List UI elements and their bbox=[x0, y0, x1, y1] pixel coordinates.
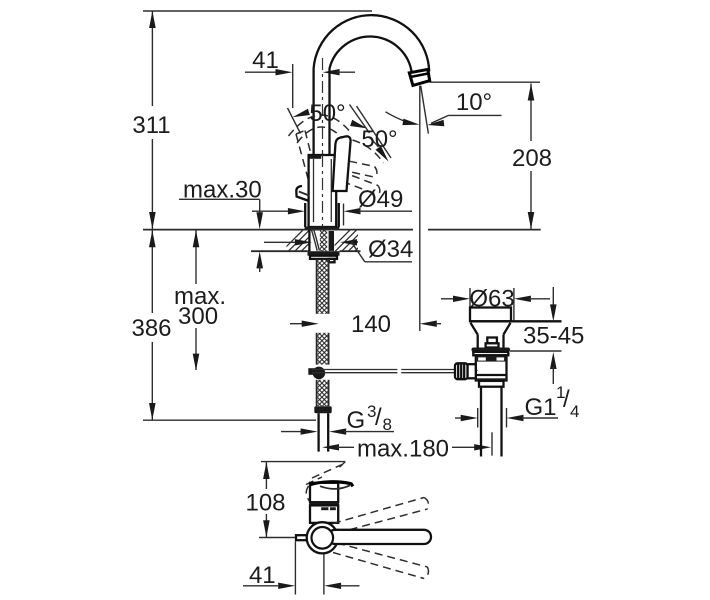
drain neck taper bbox=[471, 323, 511, 348]
drain washer bbox=[473, 352, 508, 355]
svg-text:50°: 50° bbox=[309, 100, 345, 127]
svg-text:/: / bbox=[563, 386, 570, 413]
dim 41 bottom bbox=[243, 583, 360, 589]
countertop hatching right bbox=[328, 228, 378, 252]
svg-text:Ø49: Ø49 bbox=[358, 186, 403, 213]
ext line drain centre bbox=[491, 432, 493, 455]
stream line tilted 10 deg bbox=[421, 86, 429, 134]
mounting nut bbox=[308, 251, 340, 256]
base collar left bbox=[304, 203, 306, 227]
side view body lower bbox=[310, 505, 338, 523]
pivot inner circle bbox=[312, 527, 334, 549]
base plate bbox=[305, 227, 340, 230]
shank hose curve bbox=[312, 230, 318, 251]
svg-text:G1: G1 bbox=[525, 394, 557, 421]
handle swing dashed arc outer bbox=[289, 115, 353, 136]
svg-text:/: / bbox=[375, 404, 382, 431]
spout inner contour bbox=[330, 37, 412, 155]
drain step bbox=[479, 381, 504, 387]
side view spout under curve bbox=[320, 485, 350, 489]
base collar right bbox=[338, 203, 340, 227]
drain stem knob bbox=[486, 338, 499, 348]
label G1 1/4 bbox=[525, 383, 580, 421]
body top dark band bbox=[309, 155, 321, 159]
shank left wall bbox=[308, 230, 310, 252]
svg-text:Ø34: Ø34 bbox=[368, 236, 413, 263]
rod guide stub bbox=[329, 259, 335, 262]
drain tailpipe bbox=[481, 387, 502, 457]
dashed lever down position bbox=[333, 543, 428, 579]
hose nut bottom bbox=[314, 406, 331, 413]
pop-up rod horizontal bbox=[312, 370, 455, 373]
svg-text:4: 4 bbox=[570, 402, 579, 421]
svg-text:108: 108 bbox=[245, 490, 285, 517]
svg-text:386: 386 bbox=[131, 315, 171, 342]
dim dia49 bbox=[252, 204, 412, 226]
drain body slot band bbox=[476, 356, 507, 361]
dim G3/8 arrows bbox=[281, 428, 394, 434]
handle swing dashed arc inner bbox=[297, 127, 347, 143]
svg-text:8: 8 bbox=[383, 415, 392, 434]
G3/8 pipe end bbox=[319, 413, 329, 451]
pop-up rod ball joint bbox=[313, 367, 326, 380]
lever arm solid bbox=[328, 530, 431, 544]
side view pin left bbox=[296, 535, 310, 540]
stream line vertical from tip bbox=[419, 86, 421, 331]
shank rod channel dark bbox=[329, 231, 334, 251]
extension line 41 (handle extreme) bbox=[292, 64, 294, 108]
side view break ellipse dashed bbox=[306, 486, 336, 501]
ref line 35-45 lower bbox=[510, 350, 562, 352]
svg-text:208: 208 bbox=[512, 145, 552, 172]
shank braid bbox=[320, 230, 327, 252]
angular dim 50deg no.1 bbox=[288, 108, 368, 134]
dim max.30 leader bbox=[179, 199, 263, 272]
hook detail left bbox=[296, 186, 309, 201]
svg-text:41: 41 bbox=[249, 562, 276, 589]
dim max.300 vertical bbox=[193, 230, 200, 371]
countertop bottom line bbox=[251, 250, 307, 252]
spout outer contour bbox=[314, 15, 430, 155]
faucet centerline bbox=[322, 58, 324, 228]
dim line 208 vertical bbox=[528, 84, 535, 230]
side view body seam band bbox=[309, 502, 339, 505]
svg-text:max.30: max.30 bbox=[183, 176, 262, 203]
dim dia63 bbox=[441, 288, 550, 321]
drain body seam bbox=[476, 374, 507, 376]
pivot outer circle bbox=[307, 522, 338, 553]
centerline inside body bbox=[322, 155, 324, 228]
dim 41 top bbox=[245, 69, 355, 75]
svg-text:max.180: max.180 bbox=[357, 436, 449, 463]
flex hose segment 2 bbox=[317, 333, 329, 365]
svg-text:35-45: 35-45 bbox=[523, 323, 584, 350]
dim 108 vertical bbox=[263, 462, 270, 537]
extension line top (spout height ref) bbox=[143, 10, 372, 12]
svg-text:G: G bbox=[347, 407, 366, 434]
countertop top line bbox=[143, 229, 413, 231]
side view vent dashes bbox=[321, 507, 336, 510]
dim 386 vertical bbox=[149, 230, 156, 420]
label G3/8 bbox=[347, 402, 392, 434]
side view body upper bbox=[310, 483, 338, 502]
dim 140 bbox=[290, 321, 441, 327]
svg-text:311: 311 bbox=[132, 112, 170, 139]
svg-text:10°: 10° bbox=[456, 89, 492, 116]
dim line 311 vertical bbox=[149, 11, 156, 229]
angular dim 10deg arc and arrows bbox=[386, 112, 502, 127]
dim max.180 bbox=[322, 444, 491, 450]
side view spout stub top bbox=[310, 482, 353, 487]
drain body bbox=[476, 355, 507, 380]
rod cone into drain bbox=[471, 368, 479, 373]
dashed handle rotated left bbox=[296, 131, 319, 187]
ref line hose connection depth bbox=[143, 419, 316, 421]
extension line 208 (from spout tip) bbox=[429, 81, 540, 83]
drain body bottom band bbox=[476, 378, 507, 381]
washer bbox=[310, 256, 337, 259]
side view ref line top bbox=[261, 462, 345, 468]
countertop hatching left bbox=[281, 228, 331, 252]
handle lever solid bbox=[333, 136, 351, 191]
svg-text:140: 140 bbox=[351, 311, 391, 338]
flex hose segment 3 bbox=[317, 380, 329, 406]
rod clamp block bbox=[468, 364, 476, 378]
svg-text:300: 300 bbox=[178, 303, 218, 330]
side view break dashes above spout bbox=[306, 465, 342, 485]
drain cap bbox=[470, 308, 511, 322]
dashed handle rotated right B bbox=[340, 171, 380, 195]
dim G1 1/4 bbox=[455, 408, 558, 428]
svg-text:50°: 50° bbox=[361, 126, 397, 153]
angular dim 50deg no.2 bbox=[350, 105, 392, 164]
dim dia34 bbox=[264, 239, 412, 262]
flex hose segment 1 bbox=[317, 259, 329, 314]
side view ref line bottom bbox=[259, 537, 296, 539]
dashed lever up position bbox=[333, 498, 428, 534]
drain seal flange dark bbox=[472, 348, 511, 352]
ext lines 41 bottom bbox=[295, 540, 324, 595]
faucet body bbox=[309, 155, 337, 227]
svg-text:41: 41 bbox=[252, 47, 279, 74]
rod clamp knurled knob bbox=[455, 363, 468, 379]
pop-up rod left knob bbox=[308, 368, 315, 375]
spout aerator tip bbox=[409, 69, 429, 85]
dashed handle rotated right A bbox=[337, 159, 377, 178]
cartridge lines inside body bbox=[314, 159, 332, 222]
drain cap lip bbox=[470, 320, 562, 322]
dim 35-45 bbox=[550, 287, 557, 384]
